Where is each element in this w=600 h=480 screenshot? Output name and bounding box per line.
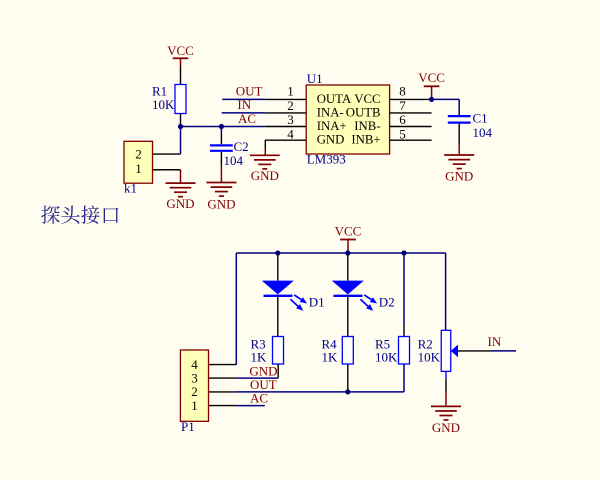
svg-text:INA+: INA+ [317,119,347,133]
svg-text:8: 8 [399,84,406,99]
resistor R3 [273,337,284,365]
svg-text:C2: C2 [234,139,249,154]
ground (R2) [431,405,461,407]
svg-text:LM393: LM393 [307,152,346,167]
svg-text:GND: GND [207,196,235,211]
wire AC net (bottom) [236,405,264,407]
wire OUT net (bottom) [236,391,404,393]
ground (C2) [206,182,236,184]
wire bus right leg to R2 [445,253,447,330]
U1 pin 2 [265,112,306,114]
wire wiper to IN [458,350,492,352]
U1 pin 6 [390,126,432,128]
wire bus to D1 [277,253,279,281]
junction C2 node [219,124,224,129]
junction pin8/VCC [429,97,434,102]
R2 wiper arrow [451,345,458,358]
svg-text:GND: GND [251,168,279,183]
wire node down to C2 [220,127,222,134]
U1 pin 7 [390,112,432,114]
wire R3 bottom to GND net [277,364,279,378]
LED D1 [262,281,294,295]
svg-text:VCC: VCC [167,43,194,58]
svg-text:D2: D2 [379,295,395,310]
wire OUT up to R5 bottom [403,364,405,392]
ground (C1) [444,154,474,156]
svg-text:IN: IN [488,334,502,349]
wire OUT net [222,98,264,100]
wire R2 to ground [445,371,447,378]
svg-text:GND: GND [432,420,460,435]
svg-text:1: 1 [191,398,198,413]
svg-text:7: 7 [399,98,406,113]
op-amp U1 body (LM393) [306,85,389,154]
connector P1 body [180,350,208,421]
svg-text:5: 5 [399,126,406,141]
svg-text:104: 104 [224,153,244,168]
svg-text:AC: AC [250,390,268,405]
svg-text:VCC: VCC [418,70,445,85]
ground (k1) [166,182,196,184]
svg-text:GND: GND [317,133,345,147]
U1 pin 3 [265,126,306,128]
P1 pin 3 [209,377,237,379]
wire IN net [222,112,265,114]
svg-text:104: 104 [473,125,493,140]
svg-text:1K: 1K [322,350,339,365]
svg-text:VCC: VCC [335,224,362,239]
wire VCC bus [236,252,445,254]
k1 pin 2 [153,153,181,155]
resistor R4 [342,337,353,365]
svg-text:OUTA: OUTA [317,92,352,106]
junction R4/OUT [345,389,350,394]
svg-text:3: 3 [191,370,198,385]
svg-text:k1: k1 [124,181,137,196]
svg-text:3: 3 [287,112,294,127]
svg-text:1: 1 [135,161,142,176]
wire bus to R5 [403,253,405,324]
ground (U1 pin4/GND) [250,154,280,156]
wire k1 pin1 to ground [180,170,182,183]
wire C2 to ground [220,152,222,167]
resistor R1 [175,85,186,114]
P1 pin 1 [209,405,237,407]
junction D1 branch [275,250,280,255]
resistor R5 [399,337,410,365]
svg-text:GND: GND [445,169,473,184]
svg-text:2: 2 [287,98,294,113]
wire VCC to R1 top [180,67,182,85]
svg-text:D1: D1 [309,295,325,310]
U1 pin 5 [390,139,432,141]
svg-text:OUTB: OUTB [346,105,381,119]
wire C1 to ground [458,124,460,144]
k1 pin 1 [153,169,181,171]
wire pin8 to C1 [432,98,460,100]
wire GND net [236,377,278,379]
svg-text:INA-: INA- [317,105,344,119]
wire bus left leg to P1 pin4 [235,253,237,365]
svg-text:1K: 1K [251,350,268,365]
svg-text:10K: 10K [152,97,175,112]
text 探头接口 (probe interface) [41,205,118,224]
wire U1 pin4 down to ground [264,140,266,148]
svg-text:U1: U1 [307,71,323,86]
wire AC net horizontal [181,126,265,128]
svg-text:10K: 10K [375,350,398,365]
U1 pin 8 [390,98,432,100]
svg-text:VCC: VCC [354,92,380,106]
junction VCC/D2 branch [345,250,350,255]
wire R4 bottom [347,364,349,392]
svg-text:INB+: INB+ [351,133,380,147]
svg-text:C1: C1 [473,110,488,125]
P1 pin 2 [209,391,237,393]
svg-text:6: 6 [399,112,406,127]
svg-text:1: 1 [287,84,294,99]
potentiometer R2 [441,330,451,371]
P1 pin 4 [209,364,237,366]
wire D2 to R4 [347,296,349,337]
capacitor C2 [210,144,233,146]
U1 pin 4 [265,139,306,141]
svg-text:INB-: INB- [354,119,380,133]
svg-text:2: 2 [135,146,142,161]
LED D2 [332,281,364,295]
svg-text:10K: 10K [418,350,441,365]
junction R1/k1 node [178,124,183,129]
wire bus to D2 [347,253,349,281]
svg-text:AC: AC [238,111,256,126]
wire D1 to R3 [277,296,279,337]
connector k1 body [124,141,153,183]
U1 pin 1 [265,98,306,100]
svg-text:GND: GND [166,196,194,211]
svg-text:4: 4 [287,126,294,141]
junction R5 branch [401,250,406,255]
capacitor C1 [448,115,471,117]
svg-text:P1: P1 [181,419,195,434]
wire R1 bottom to node [180,114,182,127]
wire node down to k1 pin 2 [180,127,182,155]
